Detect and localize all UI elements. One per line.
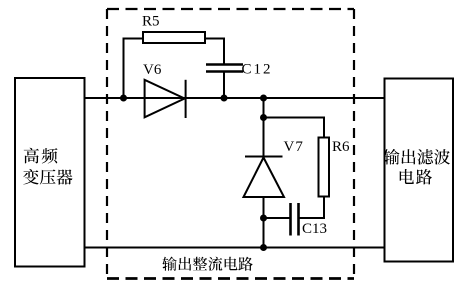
node: top rail / R5 left [120, 95, 127, 102]
caption 输出整流电路 (bottom) [162, 257, 252, 271]
wire: C13 left plate to V7 branch [264, 217, 291, 219]
capacitor C13 [291, 203, 299, 236]
block: high-frequency transformer [15, 78, 85, 267]
diode V7 (triangle, pointing up) [244, 158, 285, 198]
wire: bottom rail from transformer to filter [85, 247, 385, 249]
label 变压器 (left box line 2) [23, 169, 73, 185]
svg-text:C13: C13 [302, 221, 327, 237]
diode V6 cathode bar [185, 80, 187, 118]
label 高频 (left box line 1) [24, 148, 58, 164]
diode V6 (triangle) [145, 80, 185, 118]
wire: branch from V7 node to R6 top [264, 118, 325, 138]
dashed block border: output rectifier section [107, 9, 354, 279]
wire: C12 bottom to top rail [223, 72, 225, 99]
wire: top rail from transformer to filter [85, 97, 385, 99]
label 输出滤波 (right box line 1) [384, 149, 451, 165]
diode V7 cathode bar [245, 156, 283, 158]
capacitor C12 [206, 65, 243, 72]
wire: R6 bottom to C13 right plate [299, 197, 325, 219]
node: top rail / V7 branch [260, 95, 267, 102]
block: output filter circuit [385, 79, 454, 262]
svg-text:R6: R6 [332, 139, 350, 155]
wire: V7 branch down from top rail [263, 98, 265, 157]
node: bottom rail / V7 branch [260, 244, 267, 251]
wire: R5 left branch up from top rail [124, 39, 144, 99]
wire: R5 right to C12 top [205, 39, 224, 65]
node: V7 / R6 branch [260, 114, 267, 121]
label 电路 (right box line 2) [400, 169, 432, 184]
node: top rail / C12 [221, 95, 228, 102]
svg-text:V6: V6 [143, 62, 162, 78]
node: V7 / C13 branch [260, 215, 267, 222]
resistor R5 [143, 32, 205, 43]
svg-text:C12: C12 [242, 62, 273, 78]
wire: V7 anode down to C13 node and bottom rail [263, 197, 265, 248]
resistor R6 [319, 138, 330, 197]
svg-text:R5: R5 [142, 14, 160, 30]
svg-text:V7: V7 [284, 139, 304, 155]
